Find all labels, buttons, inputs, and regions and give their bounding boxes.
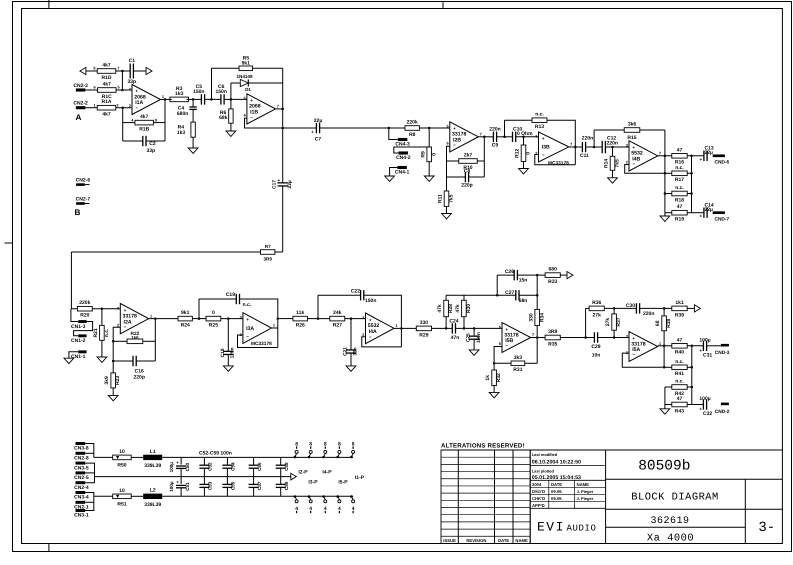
wire R41 right (687, 366, 692, 368)
junction node V2/R42 (691, 386, 694, 389)
svg-text:R31: R31 (513, 367, 522, 373)
svg-text:2: 2 (117, 103, 119, 107)
svg-text:362619: 362619 (650, 516, 689, 527)
capacitor C57 (249, 477, 259, 497)
svg-text:10n: 10n (592, 353, 601, 359)
svg-text:+: + (250, 98, 253, 103)
capacitor C13 22u polarized (704, 151, 707, 161)
svg-text:10: 10 (119, 488, 125, 494)
svg-text:150n: 150n (476, 332, 482, 343)
svg-text:C7: C7 (315, 137, 322, 143)
capacitor C54 (222, 457, 232, 476)
wire diode row left (231, 82, 240, 84)
svg-text:22µ: 22µ (705, 150, 714, 156)
svg-text:C27: C27 (505, 290, 514, 296)
svg-text:47: 47 (677, 396, 683, 402)
svg-text:3: 3 (117, 306, 119, 310)
wire R39 to output arrow (687, 307, 694, 309)
svg-text:68n: 68n (519, 298, 528, 304)
svg-text:120n: 120n (230, 347, 236, 358)
svg-text:680: 680 (549, 267, 558, 273)
wire tap down to R9 (428, 128, 430, 147)
svg-text:n.c.: n.c. (243, 302, 252, 308)
wire C4 to R4 (192, 109, 194, 122)
wire output vertical down to signal row (282, 109, 284, 128)
wire left vertical to C16 row (112, 341, 114, 361)
svg-text:C1: C1 (129, 58, 136, 64)
wire C18 branch down (227, 319, 229, 352)
resistor R20 (77, 300, 92, 318)
connector CND-3 (721, 344, 729, 347)
svg-text:R1A: R1A (101, 99, 111, 105)
wire C12 to I4B +input (606, 146, 629, 148)
resistor R14 (604, 156, 621, 170)
wire R34 bottom to I5B output (536, 326, 538, 338)
wire R1C to op-amp I1A +input (117, 89, 133, 91)
resistor R1C (98, 82, 117, 100)
junction node C27 rail / R34 vertical (536, 294, 539, 297)
svg-text:ISSUE: ISSUE (443, 538, 456, 543)
wire C19 to I3A output vertical (240, 299, 278, 319)
svg-text:C54: C54 (231, 462, 236, 471)
capacitor C14 22u polarized (704, 208, 707, 218)
resistor R26 (293, 310, 308, 328)
svg-text:MC33178: MC33178 (548, 161, 569, 167)
capacitor C56 (249, 457, 259, 476)
junction node R37 top (613, 307, 616, 310)
svg-text:80509b: 80509b (638, 459, 690, 475)
svg-text:1: 1 (150, 314, 152, 318)
svg-text:3-: 3- (758, 520, 775, 536)
svg-text:+: + (699, 407, 702, 412)
wire R40 to C31 (687, 345, 703, 347)
svg-text:R17: R17 (675, 177, 684, 183)
wire C18 to ground (227, 355, 229, 366)
svg-text:1: 1 (162, 95, 164, 99)
connector CN2-4 (74, 481, 89, 491)
wire R24 to R25 (192, 318, 206, 320)
wire C31 to CND-3 (707, 345, 721, 347)
svg-text:3: 3 (535, 135, 537, 139)
resistor R13 (532, 112, 547, 130)
wire I1B -input feedback loop (245, 118, 283, 128)
svg-text:CN2-6: CN2-6 (76, 178, 91, 184)
wire R15 to output vertical (640, 129, 665, 131)
resistor R29 (416, 320, 431, 338)
svg-text:220p: 220p (461, 182, 472, 188)
capacitor C8 (465, 172, 468, 182)
svg-text:−: − (124, 325, 127, 330)
svg-text:+: + (311, 130, 314, 135)
wire R5 feedback vertical to I1B output (282, 68, 284, 109)
ground below R19 node (660, 213, 670, 222)
svg-text:+: + (632, 145, 635, 150)
svg-text:+: + (699, 348, 702, 353)
svg-text:R1B: R1B (139, 127, 149, 133)
wire I2B output (478, 136, 493, 138)
svg-text:3: 3 (626, 334, 628, 338)
svg-text:3: 3 (129, 87, 131, 91)
junction node I4B output (664, 155, 667, 158)
svg-text:R9: R9 (420, 151, 426, 158)
wire R25 to I3A +input (221, 318, 243, 320)
junction node I3A output (277, 317, 280, 320)
resistor R1D (97, 63, 116, 81)
wire R17 right (687, 172, 691, 174)
svg-text:680n: 680n (177, 111, 188, 117)
wire R38 bottom to output (663, 331, 665, 346)
capacitor C29 (594, 332, 597, 342)
svg-text:R7: R7 (265, 244, 271, 249)
wire C8 row left (447, 176, 466, 178)
wire C9 to C10 (497, 136, 513, 138)
wire CN2-2 to R1A (85, 107, 97, 109)
svg-text:R12: R12 (515, 149, 521, 158)
R15 feedback branch wires (593, 130, 595, 147)
wire feedback tap up to R5 row (211, 68, 213, 99)
svg-text:9k1: 9k1 (181, 310, 190, 316)
svg-text:06.10.2004 10:22:50: 06.10.2004 10:22:50 (532, 459, 581, 465)
svg-text:24k: 24k (333, 310, 342, 316)
wire C26 to R33 (517, 274, 545, 276)
junction node V2/R41 (691, 366, 694, 369)
resistor R39 (672, 300, 687, 318)
wire R31 row left (494, 362, 511, 364)
wire R18 left (665, 193, 672, 195)
connector CN3-1 (74, 509, 89, 519)
wire -rail to R51 (94, 495, 113, 497)
svg-text:+: + (124, 308, 127, 313)
svg-text:05.01.2005 15:04:53: 05.01.2005 15:04:53 (532, 475, 581, 481)
svg-text:7: 7 (570, 143, 572, 147)
wire C16 row right (136, 360, 155, 362)
junction node R36 tap (584, 336, 587, 339)
ground below CN1-1 (64, 358, 74, 363)
wire I3B output to C11 (569, 146, 583, 148)
junction node V1/R18 (664, 192, 667, 195)
connector CN2-2 (73, 101, 88, 110)
junction node I1B output (281, 108, 284, 111)
output port arrow right (R33) (567, 272, 573, 279)
svg-text:339L39: 339L39 (144, 502, 161, 508)
svg-text:C56: C56 (257, 462, 262, 471)
resistor R38 (655, 316, 672, 331)
svg-text:0: 0 (431, 153, 437, 156)
wire R42 left (665, 386, 672, 388)
resistor R32 (485, 370, 502, 386)
resistor R23 (104, 373, 121, 388)
svg-text:I2A: I2A (124, 319, 132, 325)
resistor R21 (93, 325, 110, 340)
svg-text:L2: L2 (150, 488, 156, 494)
svg-text:CN4-1: CN4-1 (395, 170, 410, 176)
mid rail arrow (291, 473, 297, 480)
capacitor C53 (199, 477, 209, 497)
connector CN3-5 (74, 462, 89, 472)
svg-text:C17: C17 (271, 180, 277, 189)
svg-text:C2: C2 (149, 141, 156, 147)
power pin 4 stub 5 (350, 495, 355, 513)
junction node C19 tap (198, 317, 201, 320)
svg-text:C58: C58 (284, 462, 289, 471)
resistor R6 (219, 109, 233, 123)
revision table row lines (441, 456, 530, 458)
capacitor C19 (236, 294, 239, 304)
wire I3A output vertical (277, 319, 279, 348)
wire I2A output to R24 (149, 318, 178, 320)
svg-text:I4B: I4B (632, 156, 640, 162)
resistor R1A (97, 99, 116, 117)
junction node R37 bottom (613, 336, 616, 339)
svg-text:CN2-7: CN2-7 (76, 197, 91, 203)
wire R22 row right (143, 340, 156, 342)
wire R10 to right feedback vertical (477, 160, 484, 162)
wire CN2-3 to R1C (85, 89, 97, 91)
svg-text:7: 7 (117, 67, 119, 71)
resistor R18 (672, 185, 687, 203)
svg-text:C22: C22 (351, 288, 360, 294)
svg-text:R35: R35 (548, 341, 557, 347)
svg-text:1: 1 (273, 324, 275, 328)
junction node R17 row (664, 172, 667, 175)
R13 feedback branch wires (504, 120, 506, 137)
svg-text:CND-6: CND-6 (715, 159, 730, 165)
resistor R17 (672, 165, 687, 183)
wire I4A -input loop (362, 337, 402, 347)
resistor R35 (545, 329, 560, 347)
svg-text:CND-2: CND-2 (715, 409, 730, 415)
svg-text:+: + (542, 136, 545, 141)
wire R14 to ground (612, 170, 614, 178)
svg-text:CHK'D: CHK'D (532, 496, 545, 501)
svg-text:220p: 220p (133, 374, 144, 380)
svg-text:R27: R27 (333, 323, 342, 329)
svg-text:CN2-4: CN2-4 (74, 485, 89, 491)
capacitor C11 (582, 142, 585, 152)
wire R28 bottom to signal (445, 317, 447, 329)
wire to C14 (692, 212, 704, 214)
wire C2 row left (123, 140, 143, 142)
wire R8 to I2B +input (419, 127, 449, 129)
wire R13 to I3B output (547, 120, 575, 147)
svg-text:+: + (246, 317, 249, 322)
svg-text:47k: 47k (437, 304, 443, 313)
resistor R50 (fusible) (113, 449, 132, 469)
svg-text:J. Pieger: J. Pieger (577, 496, 594, 501)
svg-text:−: − (632, 162, 635, 167)
wire R22 row left (113, 340, 127, 342)
resistor R41 (672, 359, 687, 377)
svg-text:+: + (176, 460, 179, 465)
wire C16 row left (113, 360, 133, 362)
svg-text:NAME: NAME (577, 482, 590, 487)
svg-text:C57: C57 (257, 481, 262, 490)
svg-text:R11: R11 (438, 194, 444, 203)
svg-text:+: + (176, 480, 179, 485)
wire output bus vertical V1 (I4B) (664, 130, 666, 213)
svg-text:MC33178: MC33178 (251, 341, 272, 347)
svg-text:R20: R20 (80, 313, 89, 319)
wire R1A to op-amp I1A -input (116, 107, 132, 109)
svg-text:C52: C52 (208, 462, 213, 471)
svg-text:ALTERATIONS RESERVED!: ALTERATIONS RESERVED! (441, 443, 525, 450)
wire R3 to C5 (187, 98, 202, 100)
frame fold tick left-middle (5, 242, 13, 244)
resistor R3 (170, 86, 189, 102)
capacitor C6 (221, 94, 224, 104)
ground below R9 (424, 176, 434, 181)
svg-text:R25: R25 (209, 323, 218, 329)
resistor R7 (261, 250, 275, 255)
junction node R12 tap (522, 136, 525, 139)
wire C1 to output arrow (133, 70, 146, 72)
svg-text:6: 6 (244, 114, 246, 118)
svg-text:Last plotted: Last plotted (532, 469, 555, 474)
svg-text:D1: D1 (245, 87, 251, 92)
resistor R36 (589, 306, 604, 311)
capacitor C1 (130, 64, 133, 79)
junction node I4A output (400, 327, 403, 330)
wire R9 to ground (428, 162, 430, 176)
wire I2A -input loop (113, 327, 120, 341)
resistor R9 (420, 147, 437, 162)
svg-text:CN3-5: CN3-5 (74, 465, 89, 471)
svg-text:I1A: I1A (135, 100, 143, 106)
power pin 8 stub 5 (350, 441, 355, 458)
connector CND-6 (713, 154, 725, 157)
junction node CN4-3 tap (388, 127, 391, 130)
op-amp I3B (535, 132, 572, 162)
wire R41 left (664, 366, 672, 368)
wire I2B feedback right vertical (483, 137, 485, 177)
resistor R51 (fusible) (113, 488, 132, 508)
svg-text:+: + (369, 317, 372, 322)
svg-text:R34: R34 (539, 313, 545, 322)
R36 feedback branch wires (585, 308, 587, 337)
junction node R31/R32 (493, 362, 496, 365)
svg-text:C18: C18 (220, 348, 226, 357)
wire C24 to R30 node (456, 327, 503, 329)
wire CN1-3 to input node (71, 309, 78, 322)
power pin 4 stub 4 (336, 495, 341, 513)
svg-text:47k: 47k (455, 304, 461, 313)
junction node R38/R39 (663, 307, 666, 310)
wire R12 to ground (523, 162, 525, 169)
wire R4 to ground (192, 137, 194, 148)
svg-text:Last modified: Last modified (532, 452, 558, 457)
svg-text:n.c.: n.c. (675, 185, 684, 191)
wire R32 top (493, 363, 495, 370)
svg-text:CN3-1: CN3-1 (74, 513, 89, 519)
ground below R12 (519, 169, 529, 174)
svg-text:REVISION: REVISION (466, 538, 486, 543)
wire bracket CN3-5/CN2-5/CN2-4 to mid rail (85, 463, 94, 483)
svg-text:0: 0 (526, 152, 532, 155)
wire output feedback vertical (164, 99, 166, 141)
svg-text:R19: R19 (675, 217, 684, 223)
capacitor C26 (514, 270, 517, 280)
junction node I1A output (164, 98, 167, 101)
svg-text:+: + (699, 157, 702, 162)
junction node C26 rail / R34 vertical (536, 274, 539, 277)
wire feedback row left to R1B (123, 122, 135, 124)
power pin 8 stub 4 (336, 441, 341, 458)
wire V1 vertical I5A (663, 346, 665, 368)
junction node C18 tap (227, 317, 230, 320)
resistor R33 (545, 267, 560, 285)
wire tap down to R12 (523, 137, 525, 145)
capacitor C4 (189, 107, 196, 109)
svg-text:3: 3 (362, 316, 364, 320)
capacitor C5 (201, 94, 204, 104)
connector CN1-1 (71, 350, 87, 360)
svg-text:R14: R14 (604, 159, 610, 168)
wire R6 to ground (230, 123, 232, 131)
wire C7 to CN4 junction (320, 127, 405, 129)
wire R32 to ground (493, 386, 495, 393)
ground below R23 (108, 395, 118, 400)
wire I5B output to R35 (531, 337, 545, 339)
svg-text:I5A: I5A (632, 347, 640, 353)
resistor R5 (239, 66, 253, 71)
op-amp I2B (447, 122, 482, 152)
op-amp I4A (362, 313, 397, 344)
wire R43 right (687, 404, 692, 406)
wire R7 row right segment (275, 251, 283, 253)
wire I5B -input loop (494, 347, 502, 364)
svg-text:100µ: 100µ (169, 462, 174, 473)
svg-text:CN2-5: CN2-5 (74, 475, 89, 481)
junction node R30 tap (463, 327, 466, 330)
svg-text:C50: C50 (185, 463, 190, 472)
svg-text:R21: R21 (93, 328, 99, 337)
output port arrow right (row1 aux) (146, 67, 152, 74)
capacitor C30 (636, 303, 639, 313)
svg-text:5: 5 (244, 97, 246, 101)
wire down to row 2 input (71, 252, 77, 309)
resistor R40 (672, 337, 687, 355)
logo EVI AUDIO (537, 519, 597, 534)
svg-text:n.c.: n.c. (675, 165, 684, 171)
ground below R32 (489, 392, 499, 397)
svg-text:NAME: NAME (515, 538, 528, 543)
svg-text:1k3: 1k3 (175, 91, 184, 97)
frame fold tick top-center (442, 2, 444, 9)
connector CN4-2 (396, 151, 411, 161)
wire I3B -input loop (535, 154, 576, 164)
svg-text:100µ: 100µ (699, 337, 710, 343)
wire C5 to C6 (205, 98, 221, 100)
svg-text:5: 5 (447, 125, 449, 129)
svg-text:R40: R40 (675, 350, 684, 356)
svg-text:R18: R18 (675, 197, 684, 203)
wire CN2-6 stub (85, 184, 90, 186)
wire C26 rail (497, 274, 514, 276)
svg-text:4: 4 (131, 118, 134, 122)
svg-text:2k7: 2k7 (464, 153, 473, 159)
inductor L2 (143, 488, 162, 508)
wire C8 row right (469, 176, 485, 178)
resistor R43 (672, 396, 687, 414)
svg-text:EVI: EVI (537, 519, 565, 534)
svg-text:n.c.: n.c. (535, 112, 544, 118)
wire I1A output to R3 (161, 98, 172, 100)
svg-text:C53: C53 (208, 481, 213, 490)
capacitor C55 (222, 477, 232, 497)
op-amp I5A (626, 332, 661, 362)
wire R30 top to C27 rail (463, 295, 465, 300)
resistor R8 (405, 120, 419, 138)
